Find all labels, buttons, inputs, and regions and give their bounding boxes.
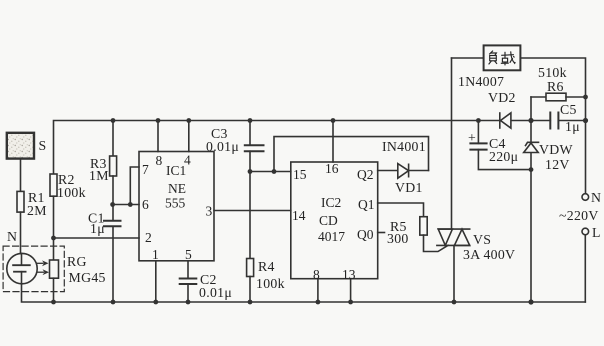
dashed enclosure RG bbox=[3, 246, 64, 292]
svg-text:VD2: VD2 bbox=[488, 90, 516, 105]
junction R4 on GND bus bbox=[248, 300, 253, 305]
svg-text:~220V: ~220V bbox=[559, 208, 599, 223]
svg-text:1N4007: 1N4007 bbox=[458, 74, 504, 89]
svg-text:300: 300 bbox=[387, 231, 409, 246]
svg-text:1M: 1M bbox=[89, 168, 109, 183]
wire Q1 to R5 bbox=[378, 203, 424, 217]
wire pin1 to gnd bbox=[155, 261, 157, 302]
svg-text:14: 14 bbox=[292, 208, 306, 223]
svg-text:VDW: VDW bbox=[539, 142, 573, 157]
svg-text:2M: 2M bbox=[27, 203, 47, 218]
wire top bus VDD y=120.5 bbox=[54, 121, 501, 175]
IC2 pin and name labels bbox=[292, 161, 375, 282]
wire pin8 to bus bbox=[157, 121, 159, 152]
svg-text:R6: R6 bbox=[547, 79, 564, 94]
terminal L bbox=[582, 228, 589, 235]
svg-text:IC2: IC2 bbox=[321, 195, 341, 210]
resistor R2 100k bbox=[50, 174, 57, 196]
svg-text:100k: 100k bbox=[57, 185, 86, 200]
node531 vertical wire bbox=[530, 97, 532, 142]
svg-text:L: L bbox=[592, 225, 601, 240]
junction R2/RG divider node bbox=[51, 236, 56, 241]
svg-text:Q0: Q0 bbox=[357, 227, 374, 242]
svg-text:IN4001: IN4001 bbox=[382, 139, 426, 154]
IC U1: IC1 NE555 box bbox=[139, 152, 214, 261]
svg-text:8: 8 bbox=[313, 267, 320, 282]
wire top bus right of VD2 bbox=[511, 120, 550, 122]
wire reset loop to VD1 cathode bbox=[274, 137, 429, 172]
capacitor C1 1u bbox=[112, 205, 114, 221]
capacitor C4 220u bbox=[477, 121, 479, 144]
junction R3/C1 node bbox=[110, 202, 115, 207]
wire S to R1 bbox=[20, 160, 22, 191]
triac VS bbox=[451, 58, 453, 229]
svg-text:+: + bbox=[468, 130, 476, 145]
junction C4 tap on VDD bus bbox=[476, 118, 481, 123]
terminal N bbox=[582, 194, 589, 201]
phototube circle bbox=[7, 253, 37, 283]
junction node D on GND bus bbox=[528, 299, 533, 304]
wire right bus upper bbox=[520, 58, 585, 194]
junction RG on GND bus bbox=[51, 300, 56, 305]
junction C3/R4 reset node bbox=[248, 169, 253, 174]
svg-text:3: 3 bbox=[206, 204, 213, 219]
junction pin8 on VDD bus bbox=[156, 118, 161, 123]
junction R6 right on N bus bbox=[583, 95, 588, 100]
svg-text:C5: C5 bbox=[560, 102, 577, 117]
svg-text:VS: VS bbox=[473, 232, 491, 247]
svg-text:220μ: 220μ bbox=[489, 149, 518, 164]
wire LDR to bus bbox=[53, 278, 55, 302]
wire pin16 to bus bbox=[332, 121, 334, 163]
svg-text:CD: CD bbox=[319, 213, 338, 228]
junction pin16 on VDD bus bbox=[331, 118, 336, 123]
svg-text:16: 16 bbox=[325, 161, 339, 176]
wire pin6 row bbox=[113, 204, 139, 206]
wire pin4 to bus bbox=[188, 121, 190, 152]
junction bbox=[316, 300, 321, 305]
svg-text:VD1: VD1 bbox=[395, 180, 423, 195]
light arrows bbox=[38, 263, 44, 272]
svg-text:6: 6 bbox=[142, 197, 149, 212]
junction pin4 on VDD bus bbox=[186, 118, 191, 123]
junction C1 on GND bus bbox=[111, 300, 116, 305]
svg-text:N: N bbox=[591, 190, 601, 205]
svg-text:5: 5 bbox=[185, 247, 192, 262]
svg-text:S: S bbox=[39, 138, 47, 153]
svg-text:7: 7 bbox=[142, 162, 149, 177]
IC2 CD4017 box bbox=[291, 162, 378, 279]
diode VD1 bbox=[398, 164, 409, 179]
svg-text:Q2: Q2 bbox=[357, 167, 374, 182]
junction C5 right on N bus bbox=[583, 118, 588, 123]
svg-text:N: N bbox=[7, 229, 17, 244]
junction C3 top on VDD bus bbox=[248, 118, 253, 123]
junction triac T1 on GND bus bbox=[452, 300, 457, 305]
junction pin1 on GND bus bbox=[153, 300, 158, 305]
svg-text:0.01μ: 0.01μ bbox=[206, 139, 239, 154]
resistor R4 100k bbox=[247, 259, 254, 277]
wire pin13 gnd bbox=[350, 279, 352, 302]
svg-text:3A 400V: 3A 400V bbox=[463, 247, 515, 262]
capacitor C2 0.01u bbox=[180, 278, 197, 280]
svg-text:MG45: MG45 bbox=[69, 270, 106, 285]
load text 负载 (drawn strokes) bbox=[489, 51, 516, 66]
svg-text:1μ: 1μ bbox=[90, 221, 105, 236]
junction reset wire tap bbox=[272, 169, 277, 174]
wire R1 to tube bbox=[20, 212, 22, 254]
wire Q0 stub bbox=[378, 232, 385, 234]
resistor R3 1M bbox=[112, 121, 114, 157]
svg-text:8: 8 bbox=[156, 153, 163, 168]
resistor R5 300 bbox=[420, 217, 427, 235]
wire pin2 row y=238 bbox=[54, 237, 140, 239]
resistor R6 510k bbox=[531, 96, 546, 98]
diode VD2 bbox=[499, 113, 501, 128]
svg-text:IC1: IC1 bbox=[166, 163, 186, 178]
wire pin8 gnd bbox=[317, 279, 319, 302]
svg-text:R4: R4 bbox=[258, 259, 275, 274]
svg-text:2: 2 bbox=[145, 230, 152, 245]
wire top bus right of C5 bbox=[558, 120, 585, 122]
wire C3/R4 node to pin15 bbox=[250, 171, 291, 173]
capacitor C5 1u bbox=[549, 113, 551, 129]
svg-text:Q1: Q1 bbox=[358, 197, 375, 212]
wire R5 to gate bbox=[424, 235, 449, 251]
svg-text:12V: 12V bbox=[545, 157, 570, 172]
svg-text:0.01μ: 0.01μ bbox=[199, 285, 232, 300]
junction node D on VDD bus bbox=[528, 118, 533, 123]
wire R4 leg bbox=[249, 172, 251, 259]
svg-text:1μ: 1μ bbox=[565, 119, 580, 134]
svg-text:1: 1 bbox=[152, 247, 159, 262]
svg-text:555: 555 bbox=[165, 196, 186, 211]
svg-text:RG: RG bbox=[67, 254, 87, 269]
svg-text:4017: 4017 bbox=[318, 229, 345, 244]
junction pin13 on GND bus bbox=[348, 300, 353, 305]
wire right bus lower bbox=[584, 235, 586, 302]
wire pin7 branch bbox=[130, 167, 139, 205]
svg-text:510k: 510k bbox=[538, 65, 567, 80]
wire pin5 bbox=[187, 261, 189, 279]
wire Q2 row bbox=[378, 170, 429, 172]
zener VDW 12V bbox=[524, 143, 539, 153]
junction R3 top on VDD bus bbox=[111, 118, 116, 123]
wire bottom bus GND y=302 bbox=[22, 284, 586, 302]
IC1 pin and name labels bbox=[142, 153, 213, 263]
svg-text:NE: NE bbox=[168, 181, 186, 196]
load box 负载 bbox=[484, 45, 521, 70]
wire pin3 row bbox=[214, 210, 291, 212]
LDR element bbox=[50, 260, 59, 278]
svg-text:100k: 100k bbox=[256, 276, 285, 291]
capacitor C3 0.01u bbox=[249, 121, 251, 146]
junction pin7 branch bbox=[128, 202, 133, 207]
junction C4 bottom / VDW anode bbox=[529, 167, 534, 172]
svg-text:15: 15 bbox=[293, 167, 307, 182]
wire R2 down to LDR bbox=[53, 196, 55, 260]
junction C2 on GND bus bbox=[186, 300, 191, 305]
sensor S box bbox=[7, 133, 34, 159]
resistor R1 2M bbox=[17, 191, 24, 212]
svg-text:13: 13 bbox=[342, 267, 356, 282]
